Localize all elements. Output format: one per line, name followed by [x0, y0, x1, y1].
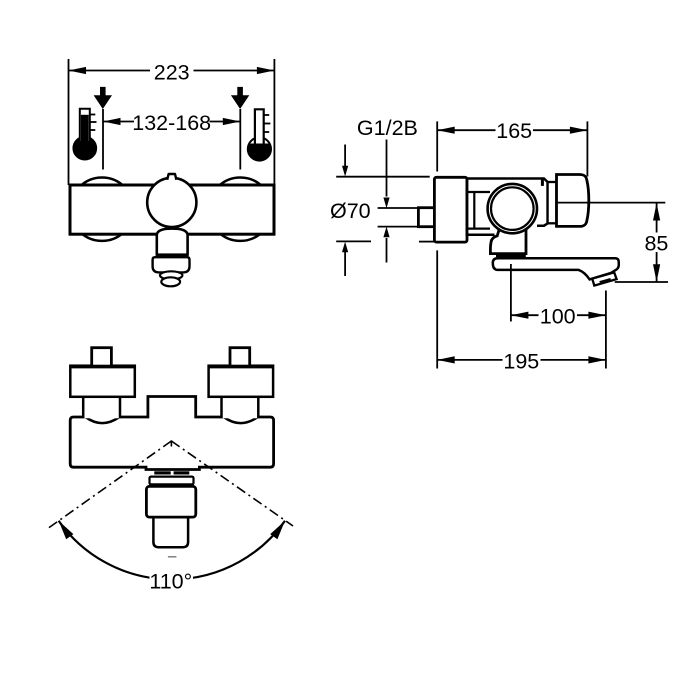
- svg-text:110°: 110°: [149, 570, 192, 594]
- svg-text:100: 100: [540, 304, 576, 328]
- svg-text:G1/2B: G1/2B: [357, 116, 418, 140]
- svg-text:195: 195: [503, 349, 539, 373]
- svg-text:223: 223: [154, 60, 190, 84]
- svg-text:132-168: 132-168: [132, 111, 211, 135]
- svg-text:85: 85: [644, 231, 668, 255]
- svg-text:Ø70: Ø70: [330, 199, 371, 223]
- svg-text:165: 165: [496, 119, 532, 143]
